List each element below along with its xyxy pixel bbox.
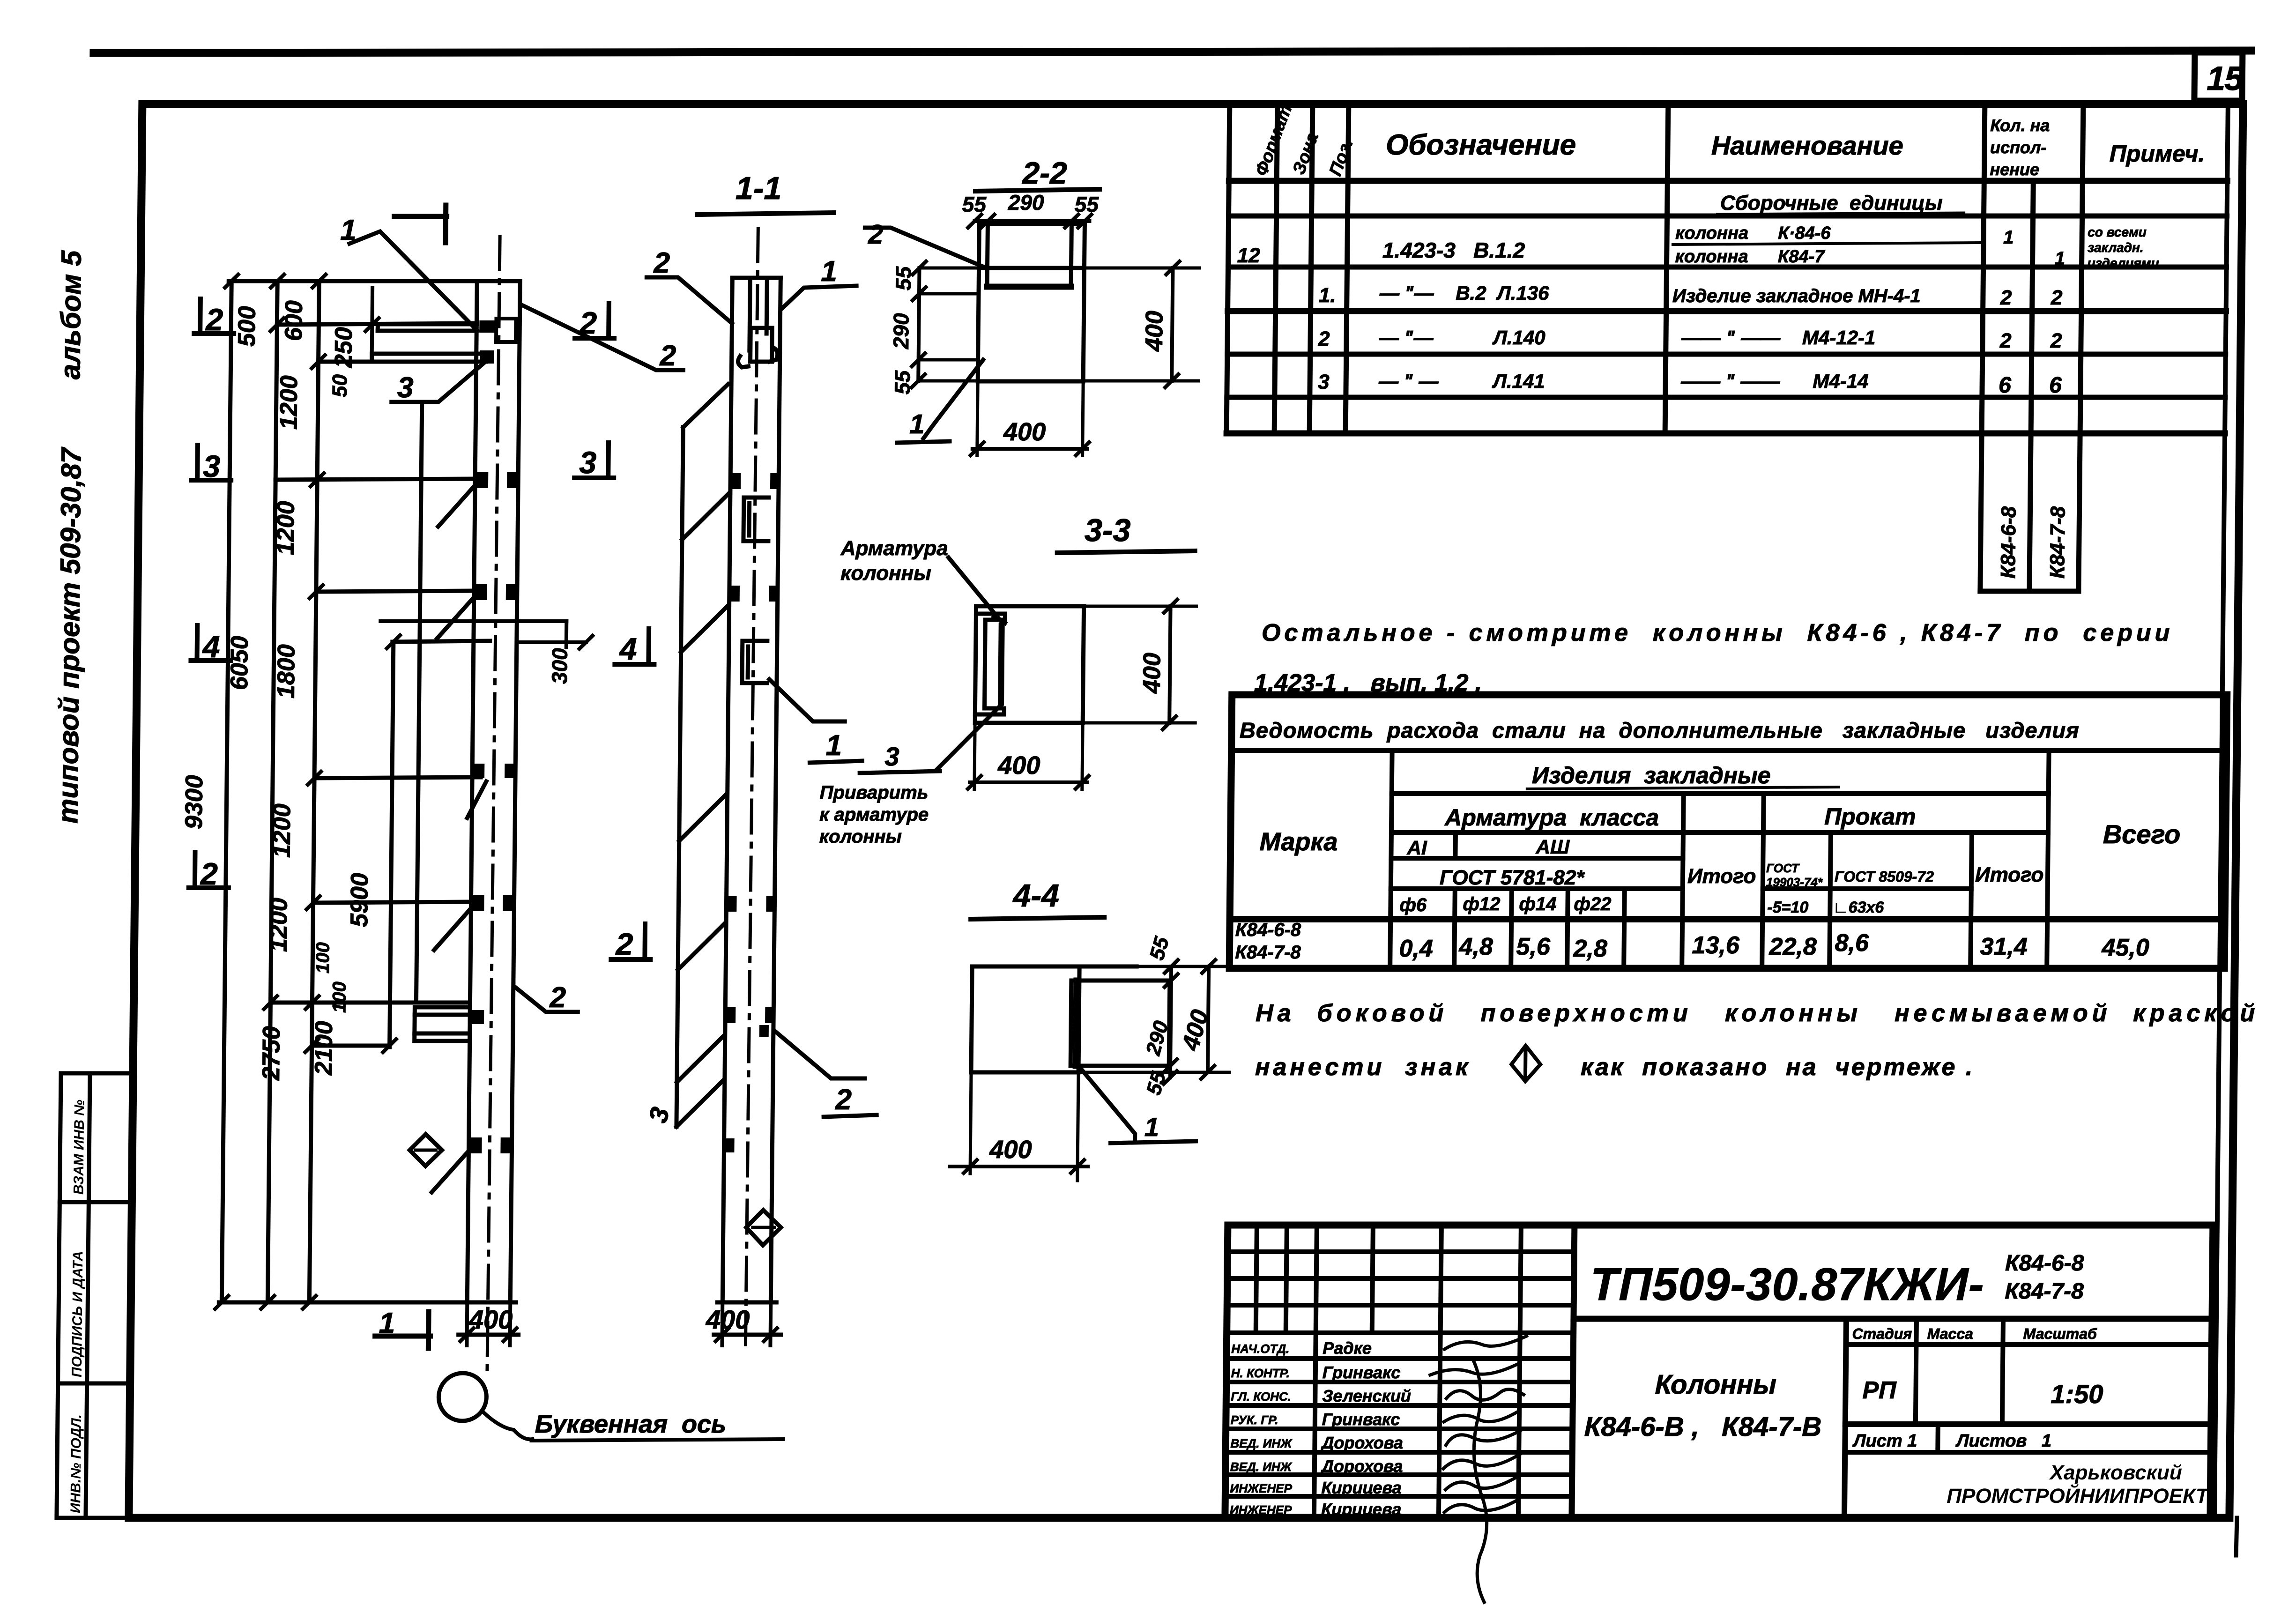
svg-text:Колонны: Колонны — [1655, 1369, 1776, 1400]
svg-text:Н. КОНТР.: Н. КОНТР. — [1231, 1366, 1290, 1380]
dim 300 — [518, 640, 586, 644]
section markers mid — [569, 304, 657, 959]
svg-text:ф22: ф22 — [1574, 894, 1611, 914]
svg-text:Зона: Зона — [1289, 130, 1323, 178]
svg-text:ПРОМСТРОЙНИИПРОЕКТ: ПРОМСТРОЙНИИПРОЕКТ — [1947, 1484, 2210, 1508]
svg-text:2: 2 — [2050, 329, 2062, 352]
svg-text:Гринвакс: Гринвакс — [1322, 1410, 1400, 1429]
svg-text:ГЛ. КОНС.: ГЛ. КОНС. — [1231, 1390, 1291, 1404]
svg-text:Наименование: Наименование — [1711, 131, 1903, 160]
svg-text:— ʺ— В.2 Л.136: — ʺ— В.2 Л.136 — [1379, 282, 1550, 304]
svg-text:2: 2 — [653, 247, 670, 279]
svg-text:55: 55 — [890, 370, 915, 394]
svg-text:Обозначение: Обозначение — [1386, 129, 1576, 161]
svg-text:5900: 5900 — [346, 873, 373, 927]
svg-text:нанести знак: нанести знак — [1255, 1054, 1471, 1081]
svg-text:К84-6-8: К84-6-8 — [1997, 506, 2020, 579]
svg-text:На боковой поверхности ко: На боковой поверхности колонны несмываем… — [1256, 1000, 2259, 1027]
tick lines across — [277, 323, 476, 325]
svg-text:Итого: Итого — [1975, 863, 2044, 886]
leader 1 for 2-2 — [923, 360, 983, 438]
svg-text:6: 6 — [2049, 373, 2062, 398]
svg-text:1200: 1200 — [272, 501, 300, 555]
svg-text:3: 3 — [397, 372, 414, 404]
dim line 9300 — [222, 281, 231, 1302]
console plate outline — [496, 319, 516, 342]
svg-text:Изделия закладные: Изделия закладные — [1532, 762, 1771, 788]
top line / dim line — [229, 279, 520, 283]
svg-text:ф12: ф12 — [1463, 894, 1500, 914]
svg-text:2-2: 2-2 — [1021, 156, 1067, 190]
dim chain line — [309, 281, 319, 1302]
svg-text:колонны: колонны — [840, 562, 931, 585]
svg-text:290: 290 — [889, 313, 914, 349]
svg-text:Радке: Радке — [1323, 1338, 1372, 1358]
svg-text:ИНЖЕНЕР: ИНЖЕНЕР — [1230, 1503, 1292, 1517]
left rows — [1227, 1249, 1574, 1254]
svg-text:1200: 1200 — [268, 803, 296, 858]
bottom dim 400 — [974, 723, 975, 789]
svg-text:Дорохова: Дорохова — [1320, 1456, 1403, 1476]
left dim 55 290 55 — [918, 268, 919, 381]
svg-text:Стадия: Стадия — [1852, 1325, 1912, 1342]
svg-text:как показано на чертеже .: как показано на чертеже . — [1581, 1054, 1975, 1081]
right area — [1574, 1316, 2212, 1322]
paint mark diamond in note — [1511, 1046, 1541, 1081]
leader 2 for 2-2 — [865, 228, 985, 267]
svg-text:ПОДПИСЬ И ДАТА: ПОДПИСЬ И ДАТА — [69, 1251, 86, 1377]
svg-text:1-1: 1-1 — [736, 171, 782, 206]
svg-text:К84-7-8: К84-7-8 — [1235, 942, 1301, 963]
svg-text:2: 2 — [615, 927, 633, 961]
leader 1 mid — [769, 679, 845, 721]
svg-text:400: 400 — [468, 1305, 513, 1334]
svg-text:АI: АI — [1406, 837, 1427, 859]
svg-text:— ʺ— Л.140: — ʺ— Л.140 — [1379, 327, 1546, 349]
svg-text:2: 2 — [200, 856, 218, 891]
axis bubble — [438, 1373, 487, 1421]
leader 2 top right — [520, 305, 684, 370]
svg-text:3: 3 — [579, 445, 596, 480]
channel outlines on axis — [742, 498, 769, 683]
svg-text:К84-7-8: К84-7-8 — [2046, 506, 2069, 579]
leader 2 lower — [774, 1031, 865, 1078]
svg-text:изделиями: изделиями — [2087, 256, 2159, 270]
svg-text:нение: нение — [1990, 160, 2039, 179]
dim ticks (slashes) — [215, 275, 403, 1309]
left small columns — [1314, 1225, 1317, 1518]
hatch strip — [676, 427, 683, 1127]
svg-text:400: 400 — [1141, 311, 1168, 352]
svg-text:3: 3 — [1318, 371, 1330, 394]
section cut mark 1-1 bottom — [375, 1334, 431, 1339]
embed plates on column — [468, 472, 518, 1153]
axis dash-dot — [745, 229, 758, 1345]
svg-text:250: 250 — [330, 327, 357, 368]
svg-text:∟63x6: ∟63x6 — [1833, 899, 1884, 916]
ELEVATION VIEW (left column) — [218, 237, 526, 1375]
svg-text:Гринвакс: Гринвакс — [1323, 1363, 1401, 1382]
svg-text:Сборочные единицы: Сборочные единицы — [1720, 192, 1943, 215]
svg-text:2,8: 2,8 — [1573, 935, 1607, 962]
leader 1 to top console — [349, 231, 478, 331]
svg-text:19903-74*: 19903-74* — [1766, 875, 1823, 889]
svg-text:НАЧ.ОТД.: НАЧ.ОТД. — [1231, 1342, 1289, 1356]
svg-text:2: 2 — [205, 302, 223, 337]
VEDOMOST steel table — [1229, 695, 2227, 968]
svg-text:Масса: Масса — [1927, 1325, 1973, 1342]
svg-text:600: 600 — [280, 300, 308, 341]
svg-text:закладн.: закладн. — [2088, 240, 2144, 255]
svg-text:-5=10: -5=10 — [1767, 899, 1808, 916]
section cut mark 1-1 top — [394, 214, 447, 219]
svg-text:Ведомость расхода стали на: Ведомость расхода стали на дополнительны… — [1240, 718, 2080, 743]
svg-text:АШ: АШ — [1535, 836, 1570, 858]
svg-text:22,8: 22,8 — [1768, 933, 1817, 960]
svg-text:Приварить: Приварить — [820, 782, 929, 803]
svg-text:5,6: 5,6 — [1516, 933, 1551, 960]
svg-text:Всего: Всего — [2103, 819, 2181, 849]
channel on top — [977, 224, 981, 268]
svg-text:колонны: колонны — [819, 826, 902, 847]
section markers far left — [187, 299, 234, 888]
right dim 55 290 55 — [1170, 966, 1171, 1077]
svg-text:2: 2 — [1318, 327, 1330, 350]
svg-text:400: 400 — [1003, 418, 1046, 446]
svg-text:2: 2 — [868, 219, 884, 250]
svg-text:3-3: 3-3 — [1085, 513, 1131, 548]
svg-text:4-4: 4-4 — [1012, 878, 1059, 914]
sheet number box 15 — [2194, 52, 2243, 101]
svg-text:55: 55 — [891, 266, 916, 290]
svg-text:К84-7-8: К84-7-8 — [2005, 1279, 2084, 1304]
bottom dim 400 — [977, 381, 978, 455]
svg-text:Масштаб: Масштаб — [2023, 1325, 2097, 1342]
svg-text:1: 1 — [2003, 227, 2014, 248]
svg-text:Поз.: Поз. — [1325, 136, 1357, 178]
section 3-3 body — [975, 606, 1084, 723]
svg-text:Зеленский: Зеленский — [1322, 1386, 1411, 1405]
embed plate right — [1070, 981, 1170, 1066]
svg-text:6050: 6050 — [226, 636, 253, 690]
svg-text:со всеми: со всеми — [2088, 225, 2147, 239]
svg-text:2: 2 — [2051, 286, 2063, 309]
svg-text:100: 100 — [329, 981, 350, 1013]
svg-text:500: 500 — [233, 306, 261, 347]
orientation diamond mark — [409, 1134, 442, 1166]
svg-text:400: 400 — [997, 751, 1040, 780]
svg-text:колонна К·84-6: колонна К·84-6 — [1675, 223, 1831, 243]
svg-text:К84-6-8: К84-6-8 — [1235, 920, 1301, 940]
svg-text:Кол. на: Кол. на — [1990, 116, 2050, 135]
svg-text:ГОСТ 8509-72: ГОСТ 8509-72 — [1835, 868, 1934, 885]
svg-text:К84-6-8: К84-6-8 — [2005, 1251, 2084, 1276]
leader 1 for 4-4 — [1075, 1063, 1136, 1142]
svg-text:Примеч.: Примеч. — [2110, 141, 2205, 167]
svg-text:1:50: 1:50 — [2051, 1379, 2103, 1409]
svg-text:1: 1 — [2054, 248, 2065, 269]
svg-text:Арматура: Арматура — [840, 537, 948, 560]
dim line 500-6050-2750 — [267, 281, 277, 1302]
inner right vertical rule — [2214, 104, 2228, 1518]
svg-text:400: 400 — [706, 1305, 750, 1334]
svg-text:9300: 9300 — [180, 775, 208, 829]
right dim 400 — [1169, 606, 1170, 723]
svg-text:альбом 5: альбом 5 — [54, 250, 87, 379]
svg-text:1: 1 — [909, 409, 925, 439]
svg-text:2: 2 — [1999, 329, 2012, 352]
svg-text:4,8: 4,8 — [1458, 933, 1493, 960]
svg-text:Кирицева: Кирицева — [1321, 1500, 1402, 1519]
column axis dash-dot — [487, 237, 500, 1375]
svg-text:55: 55 — [962, 192, 987, 216]
svg-text:2: 2 — [549, 981, 566, 1014]
top console bracket — [372, 324, 487, 362]
svg-text:Формат: Формат — [1251, 102, 1296, 178]
svg-text:Арматура класса: Арматура класса — [1444, 804, 1659, 831]
svg-text:31,4: 31,4 — [1980, 933, 2028, 960]
svg-text:Харьковский: Харьковский — [2049, 1461, 2183, 1484]
svg-text:3: 3 — [884, 742, 899, 771]
svg-text:2: 2 — [579, 305, 597, 340]
svg-text:к арматуре: к арматуре — [819, 804, 929, 825]
channel inside left — [975, 614, 1005, 714]
svg-text:ВЕД. ИНЖ: ВЕД. ИНЖ — [1230, 1436, 1293, 1450]
svg-text:4: 4 — [618, 632, 637, 666]
svg-text:Марка: Марка — [1259, 828, 1337, 856]
bottom dim 400 — [970, 1072, 971, 1174]
svg-text:3: 3 — [643, 1104, 675, 1126]
svg-text:Итого: Итого — [1687, 865, 1756, 888]
svg-text:1200: 1200 — [265, 898, 292, 952]
svg-text:РП: РП — [1862, 1377, 1897, 1404]
leader squiggle to axis name — [482, 1411, 533, 1439]
svg-text:РУК. ГР.: РУК. ГР. — [1231, 1413, 1278, 1427]
svg-text:55: 55 — [1075, 192, 1100, 216]
svg-text:12: 12 — [1237, 244, 1261, 267]
svg-text:колонна К84-7: колонна К84-7 — [1675, 247, 1826, 267]
svg-text:Лист 1: Лист 1 — [1852, 1431, 1917, 1451]
svg-text:2: 2 — [835, 1084, 852, 1116]
svg-text:100: 100 — [312, 942, 334, 973]
leader 3 — [392, 361, 487, 402]
leader 2 top — [646, 277, 732, 323]
svg-text:—— ʺ —— М4-14: —— ʺ —— М4-14 — [1680, 370, 1869, 392]
svg-text:1800: 1800 — [273, 644, 300, 698]
svg-text:300: 300 — [547, 648, 572, 684]
svg-text:400: 400 — [989, 1136, 1032, 1164]
right dim 400 — [1208, 966, 1209, 1072]
weld diagonals — [432, 486, 489, 1192]
svg-text:Кирицева: Кирицева — [1321, 1478, 1402, 1497]
lower console bracket — [415, 1007, 470, 1041]
SPECIFICATION TABLE top-right — [1225, 104, 2228, 591]
svg-text:1: 1 — [825, 729, 842, 762]
svg-text:1.: 1. — [1319, 284, 1336, 307]
svg-text:400: 400 — [1138, 653, 1166, 694]
svg-text:1: 1 — [379, 1307, 395, 1339]
svg-text:2: 2 — [659, 340, 676, 372]
console plates — [479, 320, 496, 364]
svg-text:55: 55 — [1145, 934, 1174, 962]
bottom dim 400 col2 — [714, 1333, 781, 1337]
svg-text:ВЕД. ИНЖ: ВЕД. ИНЖ — [1230, 1460, 1293, 1474]
svg-text:Прокат: Прокат — [1824, 803, 1916, 830]
svg-text:1200: 1200 — [275, 375, 303, 430]
top embed detail — [750, 278, 750, 350]
svg-text:ТП509-30.87КЖИ-: ТП509-30.87КЖИ- — [1590, 1258, 1984, 1310]
bottom dim 400 — [459, 1333, 519, 1337]
section 2-2 body — [978, 268, 1084, 381]
svg-text:ИНВ.№ ПОДЛ.: ИНВ.№ ПОДЛ. — [68, 1414, 84, 1513]
svg-text:1: 1 — [1144, 1112, 1159, 1142]
svg-text:2750: 2750 — [258, 1026, 285, 1081]
section 4-4 body — [971, 966, 1079, 1072]
signatures squiggles — [1428, 1336, 1526, 1602]
svg-text:ИНЖЕНЕР: ИНЖЕНЕР — [1230, 1481, 1292, 1495]
svg-text:—— ʺ —— М4-12-1: —— ʺ —— М4-12-1 — [1681, 327, 1876, 349]
svg-text:испол-: испол- — [1990, 138, 2047, 157]
dim line 250/50 — [372, 288, 372, 354]
svg-text:2100: 2100 — [310, 1021, 338, 1076]
svg-text:13,6: 13,6 — [1692, 932, 1740, 959]
pointer line for item 3 — [416, 403, 422, 1003]
sheet top rule — [94, 51, 2251, 53]
dim extension lines below columns — [467, 1302, 771, 1345]
svg-text:ф14: ф14 — [1519, 894, 1556, 914]
dim line 5900 — [390, 642, 394, 1047]
leader 1 top — [781, 286, 856, 309]
svg-text:3: 3 — [203, 449, 220, 483]
svg-text:50: 50 — [328, 374, 351, 397]
svg-text:6: 6 — [1999, 373, 2012, 398]
svg-text:ГОСТ: ГОСТ — [1766, 861, 1800, 875]
embed plates col2 — [724, 473, 779, 1152]
svg-text:15: 15 — [2207, 60, 2244, 97]
column body — [722, 278, 732, 1302]
svg-text:0,4: 0,4 — [1399, 935, 1433, 962]
svg-text:— ʺ — Л.141: — ʺ — Л.141 — [1378, 370, 1545, 392]
TITLE BLOCK — [1225, 1225, 2213, 1518]
svg-text:ф6: ф6 — [1399, 895, 1427, 915]
svg-text:К84-6-В , К84-7-В: К84-6-В , К84-7-В — [1584, 1412, 1821, 1442]
sidebar stamp table — [57, 1073, 133, 1518]
column body — [467, 281, 477, 1302]
svg-text:ВЗАМ ИНВ №: ВЗАМ ИНВ № — [71, 1100, 88, 1195]
svg-text:4: 4 — [201, 629, 220, 664]
K84 vertical strips below table — [1980, 433, 1982, 591]
svg-text:1.423-3 В.1.2: 1.423-3 В.1.2 — [1382, 238, 1525, 262]
svg-text:Листов 1: Листов 1 — [1955, 1431, 2051, 1451]
svg-text:Дорохова: Дорохова — [1320, 1433, 1403, 1452]
svg-text:45,0: 45,0 — [2101, 934, 2149, 961]
svg-text:Изделие закладное МН-4-1: Изделие закладное МН-4-1 — [1672, 286, 1921, 306]
svg-text:Буквенная ось: Буквенная ось — [535, 1410, 727, 1438]
section 4 cut line — [380, 619, 566, 623]
svg-text:8,6: 8,6 — [1835, 929, 1869, 957]
right dim 400 — [1172, 268, 1173, 381]
svg-text:типовой проект 509-30,87: типовой проект 509-30,87 — [52, 446, 87, 824]
svg-text:1: 1 — [821, 255, 837, 288]
svg-text:290: 290 — [1008, 190, 1045, 215]
svg-text:ГОСТ 5781-82*: ГОСТ 5781-82* — [1440, 866, 1585, 889]
top dim 55 290 55 — [974, 219, 1089, 223]
svg-text:2: 2 — [2000, 286, 2012, 309]
svg-text:Остальное - смотрите колонны: Остальное - смотрите колонны К84-6 , К84… — [1262, 619, 2174, 646]
orientation diamond col2 — [746, 1210, 781, 1245]
leader 2 lower — [515, 988, 578, 1012]
